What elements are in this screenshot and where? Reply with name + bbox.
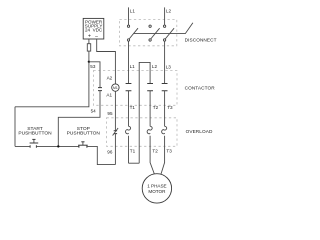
START pushbutton PB1 bbox=[18, 126, 52, 148]
svg-text:T2: T2 bbox=[152, 149, 158, 154]
contactor main contact 2 bbox=[147, 84, 153, 127]
node 53 junction dot bbox=[88, 61, 90, 63]
svg-text:DISCONNECT: DISCONNECT bbox=[185, 38, 217, 43]
fuse F1 bbox=[87, 44, 90, 51]
line L1 top bbox=[128, 7, 130, 25]
svg-text:PUSHBUTTON: PUSHBUTTON bbox=[67, 131, 101, 137]
svg-text:CONTACTOR: CONTACTOR bbox=[185, 86, 216, 91]
disconnect dashed box bbox=[120, 20, 177, 46]
line L2 top bbox=[164, 7, 166, 25]
contactor dashed box bbox=[93, 71, 177, 106]
svg-text:24 VDC: 24 VDC bbox=[85, 27, 103, 32]
svg-text:OVERLOAD: OVERLOAD bbox=[186, 129, 213, 134]
svg-text:54: 54 bbox=[91, 109, 97, 114]
motor M bbox=[142, 174, 171, 203]
svg-text:T3: T3 bbox=[166, 149, 172, 154]
wire coil A1 down to overload 95 bbox=[114, 91, 116, 130]
wire left drop bbox=[14, 107, 16, 147]
overload NC contact 95-96 bbox=[113, 128, 119, 136]
disconnect pole 1 bbox=[127, 25, 138, 41]
svg-text:+: + bbox=[88, 33, 91, 39]
disconnect pole 3 bbox=[163, 25, 174, 41]
overload heater 3 bbox=[162, 126, 167, 134]
svg-text:M1: M1 bbox=[113, 86, 118, 90]
svg-text:96: 96 bbox=[107, 149, 113, 154]
svg-text:T3: T3 bbox=[167, 105, 173, 110]
contactor main contact 3 bbox=[162, 84, 168, 127]
overload dashed box bbox=[107, 118, 178, 147]
svg-text:T2: T2 bbox=[153, 105, 159, 110]
disconnect pole 2 bbox=[149, 25, 160, 41]
svg-text:T1: T1 bbox=[130, 149, 136, 154]
bottom rail with START break bbox=[15, 145, 79, 147]
disconnect link bar and handle bbox=[134, 23, 193, 34]
wire node53 down and left (top rail) bbox=[15, 62, 89, 107]
svg-text:A1: A1 bbox=[106, 92, 112, 97]
svg-text:T1: T1 bbox=[130, 105, 136, 110]
svg-text:PUSHBUTTON: PUSHBUTTON bbox=[18, 131, 52, 137]
wire fuse to node 53 bbox=[88, 51, 90, 62]
wire pole3 to contactor bbox=[164, 41, 166, 83]
wire from + terminal down to fuse bbox=[88, 39, 90, 44]
junction dot node bbox=[57, 145, 59, 147]
svg-text:1 PHASE: 1 PHASE bbox=[147, 183, 166, 188]
coil M1 bbox=[112, 84, 119, 91]
jumper loop T1 to L2 terminal bbox=[139, 62, 150, 163]
power supply PS1 box bbox=[83, 18, 104, 39]
svg-text:95: 95 bbox=[107, 111, 113, 116]
aux contact 53-54 bbox=[58, 62, 102, 147]
svg-text:53: 53 bbox=[90, 64, 96, 69]
rail STOP to corner, down, right, up to 96 bbox=[87, 146, 115, 164]
overload heater 2 bbox=[147, 126, 152, 134]
overload heater 1 bbox=[126, 126, 131, 134]
svg-text:–: – bbox=[95, 34, 98, 40]
svg-text:L3: L3 bbox=[166, 65, 172, 70]
wire minus terminal to coil top bbox=[97, 39, 116, 84]
svg-text:L2: L2 bbox=[166, 9, 172, 14]
svg-text:L1: L1 bbox=[130, 64, 136, 69]
svg-text:MOTOR: MOTOR bbox=[148, 189, 166, 194]
svg-text:L2: L2 bbox=[152, 64, 158, 69]
svg-text:L1: L1 bbox=[130, 9, 136, 14]
U-turn T1 loop bottom bbox=[129, 162, 140, 164]
wire 96 down bbox=[114, 134, 116, 165]
STOP pushbutton PB2 bbox=[67, 126, 101, 148]
wire pole1 to contactor bbox=[128, 41, 130, 83]
svg-text:A2: A2 bbox=[107, 75, 113, 80]
contactor main contact 1 bbox=[126, 84, 132, 127]
